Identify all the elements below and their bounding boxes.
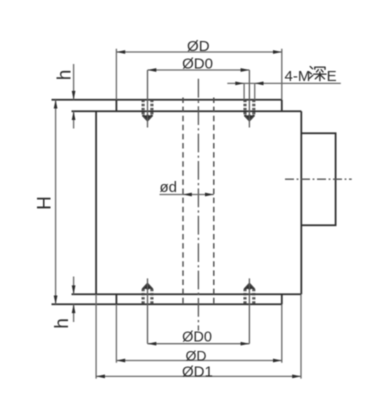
dimension H: dimension line [55, 100, 57, 305]
dimension ØD bottom: extension lines [116, 304, 281, 362]
svg-text:ØD: ØD [187, 38, 210, 55]
dimension h top: dimension lines [73, 64, 75, 129]
callout 4-M: thread extension lines [244, 83, 255, 99]
svg-text:ød: ød [160, 179, 178, 196]
svg-text:h: h [52, 318, 73, 329]
dimension ØD top: dimension line [116, 51, 281, 53]
dimension ØD0 top: dimension line [148, 69, 250, 71]
center hole Ød hidden line left [182, 98, 184, 306]
hand-drawn CJK glyph "shen" (depth) [309, 66, 326, 80]
dimension ØD1 bottom: dimension line [96, 375, 301, 377]
svg-text:E: E [327, 68, 337, 85]
tapped hole top-left centerline (ØD0 extension) [147, 70, 149, 128]
body right edge [300, 111, 302, 294]
dimension h bottom: dimension lines [73, 277, 75, 323]
tapped hole bottom-right centerline (ØD0 extension) [248, 278, 250, 343]
tapped hole top-right M thread [244, 100, 254, 121]
bottom flange bottom edge (with left extension for H and h dims) [52, 303, 282, 305]
svg-text:h: h [55, 70, 76, 81]
body left edge [95, 111, 97, 294]
top flange top edge (with left extension for H and h dims) [52, 99, 282, 101]
dimension ØD0 bottom: dimension line [148, 343, 250, 345]
svg-text:ØD: ØD [186, 347, 207, 363]
tapped hole bottom-right M thread [244, 283, 254, 304]
tapped hole top-left M thread [142, 100, 152, 121]
svg-text:ØD0: ØD0 [182, 55, 213, 72]
top flange left edge [115, 100, 117, 112]
callout 4-M depth E: leader line [227, 82, 340, 84]
svg-text:H: H [34, 196, 55, 210]
center hole Ød hidden line right [213, 98, 215, 306]
dimension ØD top: extension lines [116, 49, 281, 100]
tapped hole bottom-left M thread [142, 283, 152, 304]
svg-text:4-M: 4-M [285, 68, 311, 85]
cable connector housing on right [301, 133, 335, 225]
horizontal centerline of connector [285, 178, 352, 180]
tapped hole bottom-left centerline (ØD0 extension) [147, 278, 149, 343]
dimension ØD bottom: dimension line [116, 360, 281, 362]
svg-text:ØD0: ØD0 [182, 329, 212, 345]
vertical centerline of part [197, 79, 199, 331]
top flange right edge [281, 100, 283, 112]
bottom flange left edge [115, 294, 117, 304]
body bottom edge (with left extension for h dim) [72, 293, 302, 295]
dimension ød center hole: dimension line [160, 194, 214, 196]
tapped hole top-right centerline (ØD0 extension) [248, 70, 250, 128]
bottom flange right edge [281, 294, 283, 304]
svg-text:ØD1: ØD1 [182, 363, 213, 380]
body top edge / flange underside (with left extension for h dim) [72, 110, 302, 112]
dimension ØD1 bottom: extension lines [96, 294, 301, 378]
